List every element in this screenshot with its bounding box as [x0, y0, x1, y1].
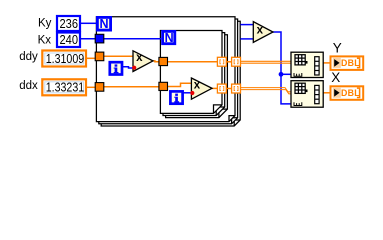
- svg-text:N: N: [99, 17, 108, 31]
- svg-text:1.31009: 1.31009: [46, 52, 85, 66]
- svg-text:236: 236: [60, 17, 79, 31]
- svg-text:X: X: [331, 70, 340, 85]
- svg-text:Y: Y: [333, 40, 342, 55]
- svg-text:N: N: [165, 31, 174, 45]
- svg-text:x: x: [136, 52, 143, 64]
- svg-text:DBL: DBL: [341, 58, 360, 68]
- svg-text:x: x: [257, 24, 264, 36]
- svg-text:ddx: ddx: [19, 80, 38, 92]
- svg-text:Kx: Kx: [38, 35, 52, 47]
- svg-text:DBL: DBL: [341, 88, 360, 98]
- svg-text:x: x: [194, 79, 201, 91]
- svg-text:240: 240: [60, 33, 79, 47]
- svg-text:ddy: ddy: [19, 51, 38, 63]
- svg-text:Ky: Ky: [38, 17, 52, 29]
- svg-text:1.33231: 1.33231: [46, 81, 85, 95]
